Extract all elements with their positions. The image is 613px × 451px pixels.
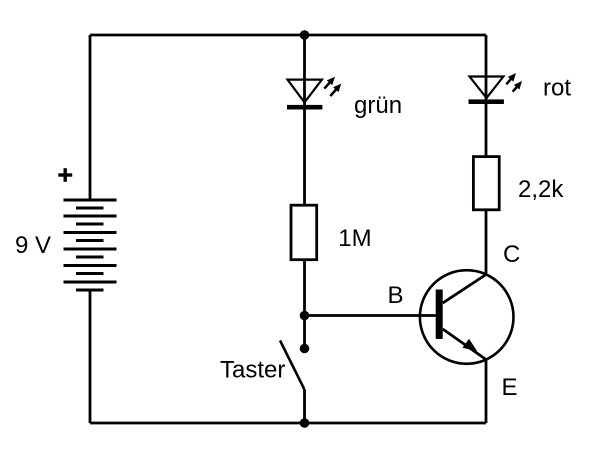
- LED D2 light arrow 2: [513, 81, 522, 92]
- svg-text:9 V: 9 V: [15, 232, 51, 259]
- wire top rail: [90, 34, 486, 37]
- LED D2 red triangle: [470, 77, 504, 99]
- transistor Q1 circle: [420, 270, 514, 364]
- wire middle branch lower: [303, 260, 306, 349]
- node top junction dot: [300, 30, 310, 40]
- transistor Q1 base bar: [436, 290, 443, 339]
- wire bottom rail: [90, 422, 486, 425]
- LED D2 cathode bar: [469, 99, 504, 104]
- switch S1 lever: [280, 340, 304, 389]
- svg-text:C: C: [503, 241, 520, 268]
- wire emitter lead: [485, 360, 488, 424]
- wire left upper (battery + lead): [89, 35, 92, 201]
- svg-text:B: B: [388, 282, 404, 309]
- resistor R1 1M body: [291, 205, 317, 260]
- svg-text:2,2k: 2,2k: [518, 176, 564, 203]
- resistor R2 2,2k body: [473, 157, 499, 210]
- LED D1 green triangle: [288, 80, 322, 103]
- battery 9V plus sign: [58, 168, 72, 182]
- wire middle branch upper: [303, 35, 306, 206]
- wire base: [305, 314, 437, 317]
- battery B1 cells: [64, 200, 117, 290]
- svg-text:grün: grün: [354, 92, 402, 119]
- svg-text:E: E: [502, 374, 518, 401]
- switch S1 top contact dot: [300, 344, 310, 354]
- LED D1 light arrow 2: [330, 84, 341, 96]
- transistor Q1 collector stroke: [443, 275, 486, 304]
- svg-text:Taster: Taster: [220, 357, 285, 384]
- LED D2 light arrow 1: [506, 73, 516, 84]
- LED D1 light arrow 1: [324, 77, 335, 89]
- transistor Q1 emitter arrowhead: [463, 339, 478, 352]
- wire switch bottom lead: [303, 389, 306, 423]
- LED D1 cathode bar: [287, 105, 322, 110]
- node bottom junction dot: [300, 418, 310, 428]
- node A junction dot (base node): [300, 311, 310, 321]
- wire left lower (battery - lead): [89, 290, 92, 423]
- svg-text:1M: 1M: [338, 225, 371, 252]
- wire right branch upper: [485, 35, 488, 157]
- transistor Q1 emitter stroke: [443, 329, 486, 360]
- svg-text:rot: rot: [543, 75, 571, 102]
- wire collector lead: [485, 210, 488, 276]
